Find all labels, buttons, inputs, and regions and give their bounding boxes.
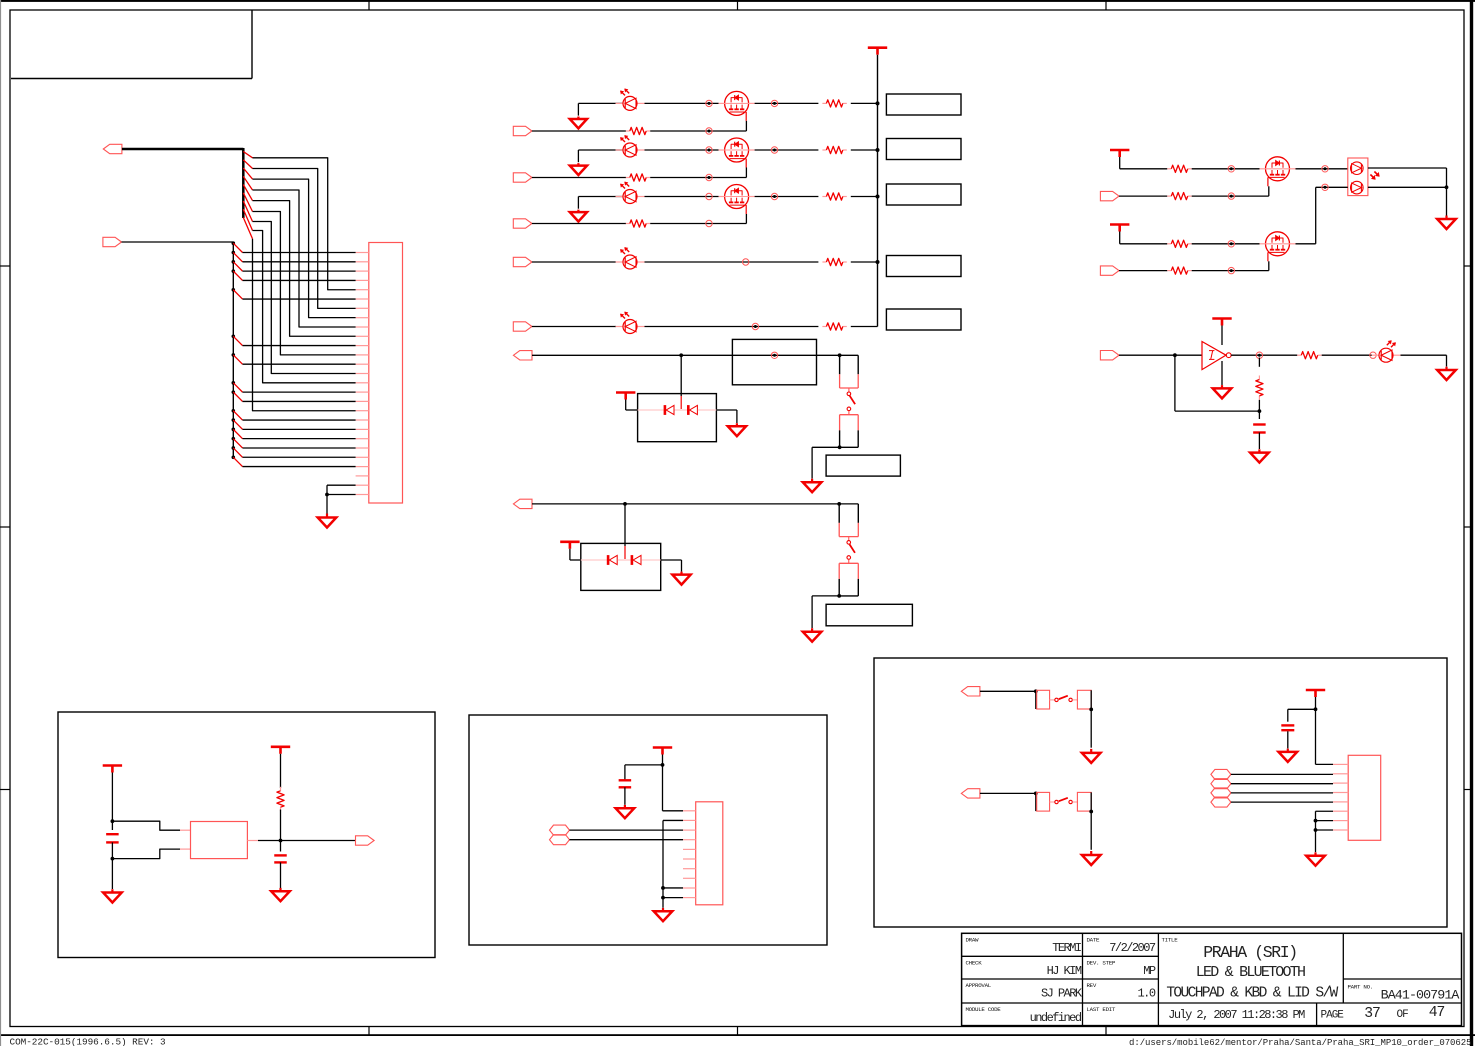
svg-text:DATE: DATE	[1087, 936, 1101, 943]
svg-text:July 2, 2007 11:28:38 PM: July 2, 2007 11:28:38 PM	[1168, 1008, 1305, 1022]
svg-text:d:/users/mobile62/mentor/Praha: d:/users/mobile62/mentor/Praha/Santa/Pra…	[1129, 1038, 1471, 1046]
svg-text:HJ KIM: HJ KIM	[1047, 964, 1082, 978]
svg-text:BA41-00791A: BA41-00791A	[1381, 988, 1460, 1003]
svg-text:PART NO.: PART NO.	[1348, 983, 1373, 990]
svg-text:7/2/2007: 7/2/2007	[1109, 941, 1156, 955]
svg-text:PAGE: PAGE	[1321, 1010, 1345, 1022]
svg-text:TERMI: TERMI	[1052, 941, 1081, 955]
svg-text:APPROVAL: APPROVAL	[966, 982, 992, 989]
svg-text:1.0: 1.0	[1138, 986, 1156, 1000]
svg-text:LED & BLUETOOTH: LED & BLUETOOTH	[1196, 964, 1305, 981]
svg-text:PRAHA (SRI): PRAHA (SRI)	[1203, 943, 1297, 962]
svg-text:undefined: undefined	[1030, 1011, 1082, 1025]
svg-text:MODULE CODE: MODULE CODE	[966, 1006, 1002, 1013]
svg-text:DRAW: DRAW	[966, 936, 980, 943]
svg-text:47: 47	[1429, 1005, 1445, 1021]
svg-text:TOUCHPAD & KBD & LID S/W: TOUCHPAD & KBD & LID S/W	[1166, 985, 1338, 1001]
svg-text:COM-22C-015(1996.6.5) REV: 3: COM-22C-015(1996.6.5) REV: 3	[10, 1037, 167, 1046]
svg-text:DEV. STEP: DEV. STEP	[1087, 959, 1116, 966]
svg-text:LAST EDIT: LAST EDIT	[1087, 1006, 1116, 1013]
svg-text:CHECK: CHECK	[966, 959, 983, 966]
svg-text:MP: MP	[1143, 964, 1156, 978]
svg-text:37: 37	[1364, 1006, 1380, 1022]
svg-text:REV: REV	[1087, 982, 1097, 989]
svg-text:TITLE: TITLE	[1162, 936, 1179, 943]
svg-text:SJ PARK: SJ PARK	[1041, 986, 1083, 1000]
svg-text:OF: OF	[1397, 1009, 1409, 1021]
